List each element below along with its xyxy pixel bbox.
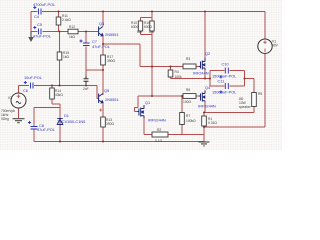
svg-text:R12: R12 [69,25,75,29]
svg-text:R7: R7 [186,114,190,118]
svg-text:2.4kΩ: 2.4kΩ [62,18,71,22]
svg-text:2nF: 2nF [83,87,89,91]
svg-text:C6: C6 [23,88,28,93]
svg-text:100k: 100k [175,75,183,79]
svg-text:390Ω: 390Ω [106,122,115,126]
svg-text:0.31Ω: 0.31Ω [208,121,217,125]
svg-text:47uF-POL: 47uF-POL [92,44,111,49]
svg-text:630Ω: 630Ω [131,25,140,29]
svg-text:R2: R2 [157,128,161,132]
svg-text:R5: R5 [258,92,262,96]
svg-text:Q5: Q5 [104,88,109,93]
svg-text:43kΩ: 43kΩ [55,93,63,97]
svg-text:V3: V3 [8,96,12,100]
svg-text:Q2: Q2 [205,51,210,56]
svg-text:0Deg: 0Deg [1,117,9,121]
svg-text:630Ω: 630Ω [144,25,153,29]
svg-text:1kΩ: 1kΩ [69,35,75,39]
svg-text:10uF-POL: 10uF-POL [24,75,43,80]
svg-text:0.1Ω: 0.1Ω [155,139,163,143]
svg-text:2N5551: 2N5551 [105,97,119,102]
svg-text:R4: R4 [175,70,179,74]
svg-text:R3: R3 [186,57,190,61]
svg-text:390Ω: 390Ω [107,59,116,63]
svg-text:C5: C5 [37,22,42,27]
svg-text:C4: C4 [34,14,40,19]
svg-text:IRF244N: IRF244N [193,71,209,76]
svg-text:15000uF-POL: 15000uF-POL [212,90,237,95]
svg-text:100Ω: 100Ω [183,100,192,104]
svg-text:Q3: Q3 [99,21,104,26]
svg-text:IRF9244N: IRF9244N [148,118,166,123]
svg-text:D1: D1 [64,113,69,118]
svg-text:47uF-POL: 47uF-POL [33,34,52,39]
svg-text:40V: 40V [272,44,279,48]
svg-text:C11: C11 [218,79,225,84]
svg-text:15000uF-POL: 15000uF-POL [212,74,237,79]
svg-text:2SCV1B0-C1N5: 2SCV1B0-C1N5 [57,119,85,124]
svg-text:47uF-POL: 47uF-POL [37,127,56,132]
svg-text:100kΩ: 100kΩ [186,119,196,123]
svg-text:Q4: Q4 [205,85,211,90]
svg-text:1kΩ: 1kΩ [63,55,69,59]
svg-text:2N5551: 2N5551 [105,32,119,37]
svg-text:speaker: speaker [239,105,252,109]
svg-text:IRF9244N: IRF9244N [198,104,216,109]
svg-text:Q1: Q1 [145,100,150,105]
svg-text:R6: R6 [186,88,190,92]
svg-text:4700uF-POL: 4700uF-POL [33,2,56,7]
svg-text:C10: C10 [222,62,230,67]
